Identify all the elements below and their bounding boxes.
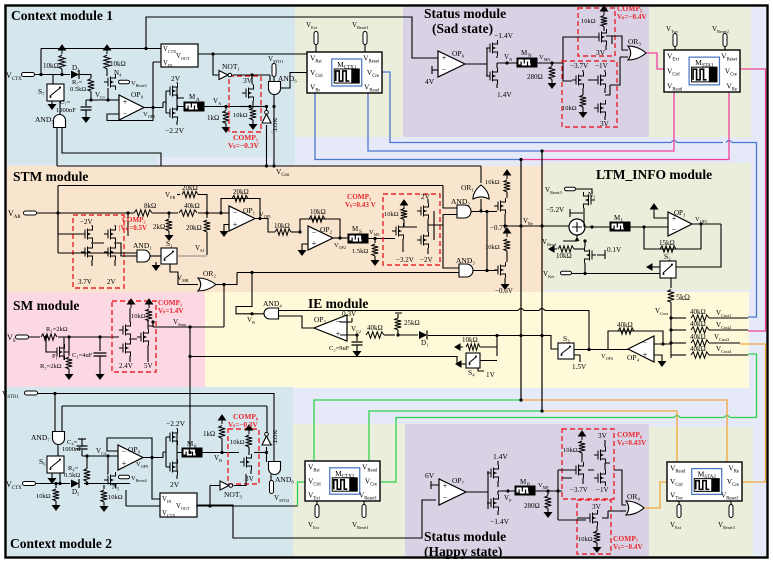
OR1 output to VCou line: [480, 166, 482, 183]
wire ML to OP3: [630, 226, 668, 228]
NOT5 wires: [266, 107, 268, 167]
V_Ext connector M_STA2: [678, 501, 680, 505]
memristor M_P: [515, 486, 535, 495]
comp6 left nmos: [581, 453, 583, 462]
svg-text:8kΩ: 8kΩ: [144, 202, 156, 210]
svg-text:3V: 3V: [600, 120, 610, 128]
AND7 out to S6: [57, 445, 59, 457]
AND1 to S1: [150, 255, 161, 257]
svg-text:10kΩ: 10kΩ: [230, 439, 245, 446]
svg-text:2V: 2V: [171, 74, 181, 83]
M_STA2 region: [649, 427, 753, 557]
svg-text:AND₇: AND₇: [31, 433, 50, 442]
svg-text:D₅: D₅: [72, 488, 80, 496]
svg-text:10kΩ: 10kΩ: [485, 179, 500, 186]
svg-text:15kΩ: 15kΩ: [659, 239, 675, 247]
happy gate line: [487, 471, 489, 509]
svg-text:40kΩ: 40kΩ: [184, 202, 200, 210]
wire and2-and3 link: [486, 212, 488, 271]
comp5 pmos: [603, 27, 605, 32]
op-amp OP2: [308, 226, 333, 250]
svg-text:−2.2V: −2.2V: [166, 419, 186, 428]
memristor module M_STA1: [664, 50, 740, 92]
wire MN right: [537, 62, 563, 64]
svg-text:AND₁: AND₁: [133, 241, 152, 250]
memristor module M_CTX2: [305, 461, 380, 501]
svg-text:40kΩ: 40kΩ: [617, 321, 633, 329]
AND2 gate: [457, 205, 471, 218]
AND4 input from OP5: [279, 316, 315, 328]
wire OR2 to AND3: [237, 272, 459, 274]
comp3 resistor 10k: [401, 209, 407, 220]
comp6 gnd stub: [579, 431, 586, 440]
svg-text:AND₃: AND₃: [456, 256, 475, 265]
stm right resistor 10k top: [504, 180, 510, 192]
gate NOT1: [213, 54, 219, 75]
AND8 gate: [269, 462, 281, 475]
svg-text:M: M: [352, 225, 359, 233]
svg-text:OR₁: OR₁: [461, 183, 474, 192]
comp2 left pair: [81, 226, 93, 242]
svg-text:LTM_INFO module: LTM_INFO module: [596, 167, 712, 182]
resistor 280 happy: [547, 491, 549, 495]
svg-text:10kΩ: 10kΩ: [108, 494, 123, 501]
svg-text:Vₜ=−0.4V: Vₜ=−0.4V: [617, 13, 647, 21]
svg-text:S₁: S₁: [166, 239, 173, 248]
Status module (Sad state) region: [403, 7, 649, 137]
OP5 plus wire: [340, 334, 357, 336]
diode D5: [71, 480, 79, 488]
OP2 ground: [302, 244, 308, 250]
OR2 output wire: [216, 273, 237, 285]
sm wires: [112, 322, 153, 339]
V_Re node: [505, 225, 570, 227]
resistor 1k below V_A: [225, 107, 227, 111]
M_STA1 region: [649, 7, 751, 137]
COMP1 pmos: [242, 85, 254, 101]
svg-text:D₁: D₁: [421, 339, 429, 347]
memristor M_N: [517, 58, 537, 67]
svg-text:20kΩ: 20kΩ: [186, 224, 202, 232]
svg-text:20kΩ: 20kΩ: [182, 184, 198, 192]
memristor M_L: [610, 222, 630, 231]
wire ctx2 bottom net: [126, 505, 298, 507]
svg-text:0.5kΩ: 0.5kΩ: [64, 472, 80, 479]
wire R7 to VC1 rail: [90, 92, 92, 101]
node 2k: [167, 211, 170, 214]
svg-text:−2.2V: −2.2V: [165, 126, 185, 135]
vcc stub N4: [104, 45, 111, 54]
P1 right leg: [64, 337, 69, 352]
svg-text:AND₄: AND₄: [263, 299, 282, 308]
OP3 feedback: [644, 224, 701, 249]
op-amp OP4: [628, 336, 654, 362]
Context module 1 region: [7, 7, 295, 157]
svg-text:SM module: SM module: [13, 298, 79, 313]
AND4 input long line from V_OP4: [279, 311, 590, 350]
svg-text:AND₂: AND₂: [451, 197, 470, 206]
happy out node: [498, 490, 515, 492]
svg-text:40kΩ: 40kΩ: [690, 333, 706, 341]
resistor R1 2k: [41, 334, 57, 340]
svg-text:N: N: [528, 54, 532, 59]
capacitor C1: [99, 337, 101, 351]
resistor 10k N4: [104, 55, 110, 69]
svg-text:−: −: [233, 208, 238, 217]
svg-text:40kΩ: 40kΩ: [367, 324, 383, 332]
ground S7: [51, 101, 53, 104]
comp8 nmos: [248, 447, 250, 455]
svg-text:Vₜ=0.43V: Vₜ=0.43V: [617, 439, 647, 447]
memristor module M_CTX1: [307, 52, 382, 93]
AND8 wires: [267, 453, 272, 481]
svg-text:IE module: IE module: [308, 296, 368, 311]
svg-text:+: +: [442, 54, 447, 63]
comp8 resistor 10k: [246, 435, 252, 447]
comp3 pmos pair: [417, 203, 429, 219]
wire VA into comp1: [240, 106, 253, 108]
V_CTX connector: [22, 73, 35, 77]
svg-text:OR₃: OR₃: [628, 37, 641, 46]
svg-text:|Vₜ|=0.5V: |Vₜ|=0.5V: [119, 224, 147, 232]
svg-text:0.5kΩ: 0.5kΩ: [70, 86, 86, 93]
wire M_A to COMP1: [204, 106, 240, 108]
svg-text:10kΩ: 10kΩ: [485, 244, 500, 251]
resistor 40k row3: [671, 342, 686, 344]
svg-text:OP₅: OP₅: [314, 315, 327, 324]
wire blue V_Br M_CTX1 to x521 junction: [315, 93, 521, 160]
svg-text:−: −: [312, 228, 317, 237]
wire S1 bottom to OR2 input: [170, 264, 198, 285]
comp6 resistor 10k: [579, 441, 585, 453]
SM module region: [7, 292, 205, 387]
AND4 output jog to OR2-AND3 line: [236, 273, 264, 314]
wire orange x521 junction to M_STA2 V_Re: [521, 400, 727, 462]
V_Reset4 connector: [119, 475, 130, 479]
OP5 minus wire: [340, 321, 347, 323]
svg-text:+: +: [643, 350, 648, 359]
svg-text:−1V: −1V: [595, 62, 609, 70]
wire pink M_STA1 V_Re down-left: [521, 92, 729, 160]
resistor 2k divider: [168, 213, 170, 218]
svg-text:1000nF: 1000nF: [62, 446, 82, 453]
wire vertical net x521: [520, 160, 522, 401]
svg-text:−: −: [643, 339, 648, 348]
wire Vout to OP7: [197, 500, 436, 538]
svg-text:3.7V: 3.7V: [78, 278, 92, 286]
resistor 40k ie: [366, 332, 384, 338]
stm right pmos: [494, 198, 506, 214]
inverter2 out: [177, 433, 182, 471]
resistor R7 0.5k: [88, 79, 94, 92]
OP1 output: [255, 219, 275, 233]
svg-text:AND₅: AND₅: [35, 115, 54, 124]
comp6 wires: [562, 463, 626, 505]
NOT1 out wire: [233, 74, 271, 76]
node rail x58: [56, 211, 59, 214]
wire V_CTX input rail: [35, 49, 161, 75]
AND2 output: [471, 211, 497, 213]
vcc stub R ctx1: [59, 45, 66, 54]
svg-text:1.4V: 1.4V: [493, 452, 508, 461]
comp6 dashed box: [562, 429, 614, 499]
svg-text:Vₜ=1.4V: Vₜ=1.4V: [158, 307, 184, 315]
comp4 dashed box: [562, 61, 617, 127]
node V_A: [224, 105, 227, 108]
resistor 280 sad: [551, 63, 553, 66]
wire blue V_Read M_CTX1 to x542 junction: [368, 93, 542, 151]
sm vcc stubs: [128, 299, 135, 308]
resistor 5k: [668, 290, 674, 303]
switch S7: [47, 84, 64, 101]
switch S6: [47, 456, 64, 473]
svg-text:3V: 3V: [596, 48, 606, 57]
V_Smu vertical up to OR2 wire: [223, 285, 225, 328]
comp3 vcc: [401, 200, 408, 209]
ctx2 top line: [54, 394, 56, 433]
comp3 left nmos: [392, 223, 404, 239]
svg-text:N₅: N₅: [112, 483, 120, 491]
svg-text:10kΩ: 10kΩ: [581, 18, 596, 25]
svg-text:M: M: [187, 440, 194, 448]
svg-text:P₁: P₁: [52, 353, 58, 360]
resistor 40k: [179, 210, 197, 216]
sad pmos: [486, 40, 498, 56]
wire V_OUT to M_CTX1: [198, 53, 307, 55]
wire pink OR3 output to M_STA1 V_Ctrl: [646, 53, 664, 69]
V_Reset3 connector: [119, 80, 130, 84]
diode D2: [71, 71, 79, 79]
wire N4 to rail: [107, 88, 109, 100]
svg-text:(Sad state): (Sad state): [432, 21, 493, 36]
STM main rail: [36, 212, 229, 214]
svg-text:10kΩ: 10kΩ: [384, 211, 399, 218]
wire vertical net x542: [541, 151, 543, 411]
svg-text:OP₇: OP₇: [452, 476, 465, 485]
AND6 wires: [270, 75, 274, 166]
svg-text:5kΩ: 5kΩ: [676, 293, 690, 302]
S3 to V_OP4: [574, 349, 628, 351]
resistor 40k row4: [671, 354, 686, 356]
svg-text:−1V: −1V: [596, 486, 609, 494]
comp2 gate wire: [58, 213, 81, 234]
transistor N4: [104, 74, 116, 90]
stm right stub2: [504, 228, 511, 237]
comp7 wires: [577, 511, 620, 518]
AND5 input wires: [57, 127, 161, 166]
comp dashed box sm: [112, 301, 156, 372]
S4 left stub: [456, 361, 464, 367]
svg-text:C₇=: C₇=: [60, 99, 71, 106]
wire OP9 to Vbox: [152, 458, 160, 500]
svg-text:C₂=9uF: C₂=9uF: [329, 345, 350, 352]
diode D1: [398, 334, 418, 336]
P1 bypass: [46, 337, 53, 352]
wire S7 top: [52, 75, 54, 85]
svg-text:−1.4V: −1.4V: [490, 517, 510, 526]
resistor R4: [84, 469, 90, 482]
svg-text:N₁: N₁: [588, 191, 596, 199]
svg-text:3V: 3V: [592, 503, 602, 511]
ltm 10k resistor: [549, 246, 557, 252]
svg-text:10kΩ: 10kΩ: [43, 62, 59, 70]
resistor 20k divider: [206, 213, 208, 218]
inverter gate wire: [146, 91, 166, 113]
wire orange OR4 output to M_STA2 V_Ctrl: [644, 482, 667, 508]
S1 output V_S1: [177, 255, 207, 257]
wire blue V_Cre M_CTX1 to V_Cust1 right bus: [382, 72, 757, 317]
NOT3 wires: [210, 474, 246, 506]
svg-text:R₄=: R₄=: [68, 465, 79, 472]
svg-text:P: P: [527, 483, 530, 488]
OP7 output wire: [466, 491, 488, 493]
capacitor C7: [85, 100, 87, 106]
svg-text:NOT₅: NOT₅: [271, 118, 278, 134]
svg-text:R₇=: R₇=: [72, 79, 83, 86]
svg-text:2V: 2V: [170, 480, 180, 489]
svg-text:R₁=2kΩ: R₁=2kΩ: [46, 326, 68, 333]
NOT2 wires: [266, 406, 269, 453]
svg-text:−: −: [442, 65, 447, 74]
svg-text:S₂: S₂: [664, 252, 671, 261]
svg-text:25kΩ: 25kΩ: [404, 319, 420, 327]
op-amp OP5: [314, 315, 347, 341]
capacitor C2: [356, 335, 358, 341]
svg-text:A: A: [196, 98, 200, 103]
svg-text:40kΩ: 40kΩ: [690, 320, 706, 328]
svg-text:OR₂: OR₂: [203, 269, 216, 278]
comp4 nmos: [594, 100, 606, 116]
OP6 output wire: [465, 63, 487, 65]
AND1 gate: [137, 250, 150, 262]
node VC1: [89, 98, 92, 101]
OP2 output: [333, 237, 348, 239]
svg-text:6V: 6V: [425, 471, 435, 480]
OP4 minus wire: [654, 343, 671, 345]
wire D1 right: [428, 336, 558, 350]
S2 bottom wire: [670, 278, 672, 288]
happy nmos: [487, 495, 499, 511]
svg-text:OP₁: OP₁: [243, 206, 256, 215]
resistor 40k row1: [671, 317, 686, 319]
svg-text:−1.4V: −1.4V: [494, 31, 514, 40]
OP8 output: [144, 107, 163, 109]
svg-text:COMP₅: COMP₅: [617, 4, 643, 13]
svg-text:L: L: [621, 219, 624, 224]
comp4 pmos pair: [572, 72, 584, 88]
summing junction: [569, 219, 585, 235]
wire MS right: [368, 238, 395, 240]
svg-text:280Ω: 280Ω: [527, 73, 543, 81]
IE module region: [205, 292, 749, 388]
transistor N5: [104, 472, 116, 488]
svg-text:−: −: [443, 493, 448, 502]
node x542 bottom: [540, 409, 543, 412]
svg-text:C₁=4uF: C₁=4uF: [72, 352, 93, 359]
comp8 vcc: [246, 425, 253, 434]
svg-text:+: +: [443, 482, 448, 491]
svg-text:3V: 3V: [243, 76, 253, 85]
svg-text:OP₈: OP₈: [131, 90, 144, 99]
memristor M_S: [348, 234, 368, 243]
OP1 feedback: [221, 199, 260, 219]
op-amp OP9: [118, 445, 143, 470]
svg-text:10kΩ: 10kΩ: [310, 208, 326, 216]
M_CTX1 region: [295, 7, 403, 137]
wire V_Cou long horizontal: [57, 165, 481, 167]
node x542 top: [540, 149, 543, 152]
comp5 resistor 10k: [601, 16, 607, 27]
svg-text:COMP₃: COMP₃: [347, 193, 371, 201]
svg-text:−3.7V: −3.7V: [570, 62, 589, 70]
svg-text:+: +: [233, 220, 238, 229]
svg-text:C₄=: C₄=: [67, 439, 78, 446]
AND4 gate: [264, 308, 279, 319]
svg-text:−0.6V: −0.6V: [495, 287, 513, 295]
svg-text:10kΩ: 10kΩ: [563, 447, 578, 454]
svg-text:N₄: N₄: [114, 69, 122, 77]
svg-text:Context module 1: Context module 1: [11, 8, 113, 23]
resistor 1.5k: [374, 239, 376, 244]
Context module 2 region: [7, 387, 293, 557]
svg-text:NOT₁: NOT₁: [222, 62, 240, 71]
wire V_IN from OP8: [153, 62, 161, 108]
svg-text:40kΩ: 40kΩ: [690, 308, 706, 316]
AND6 gate: [269, 82, 281, 95]
wire VA net right: [253, 106, 267, 108]
svg-text:Vₜ=−0.3V: Vₜ=−0.3V: [228, 141, 260, 150]
svg-text:M: M: [521, 49, 528, 57]
wire OP3 out down to S2: [676, 224, 721, 267]
wire AND6 to M_CTX1 Vctrl: [280, 73, 307, 89]
sad gate line: [486, 48, 487, 76]
svg-text:COMP₇: COMP₇: [613, 534, 639, 543]
svg-text:OP₄: OP₄: [627, 353, 640, 362]
svg-text:+: +: [123, 97, 128, 106]
resistor 25k ie: [397, 330, 399, 335]
OR4 inputs: [620, 505, 626, 511]
svg-text:Vₜ=0.43 V: Vₜ=0.43 V: [345, 201, 377, 209]
comp6 pmos pair: [594, 447, 606, 463]
svg-text:S₄: S₄: [468, 368, 475, 377]
OP8 feedback loop: [107, 108, 153, 121]
svg-text:−: −: [122, 447, 127, 456]
svg-text:−: −: [336, 318, 341, 327]
svg-text:AND₆: AND₆: [278, 74, 297, 83]
S6 right leg: [59, 473, 61, 484]
svg-text:OR₄: OR₄: [627, 492, 640, 501]
V_STO2 connector: [270, 481, 274, 494]
switch S4: [466, 353, 480, 368]
svg-text:280Ω: 280Ω: [524, 502, 540, 510]
wire M8 right: [202, 452, 239, 454]
svg-text:+: +: [336, 329, 341, 338]
OP3 vcc: [651, 204, 658, 213]
node 20k: [205, 211, 208, 214]
ctx2 rail: [35, 483, 130, 485]
comp8 dashed box: [228, 429, 259, 484]
svg-text:OP₂: OP₂: [320, 225, 333, 234]
4V bracket OP6: [432, 66, 438, 74]
gate NOT2: [262, 432, 271, 445]
svg-text:1kΩ: 1kΩ: [207, 114, 219, 122]
wire 10k to rail: [61, 69, 63, 75]
svg-text:−2V: −2V: [80, 218, 93, 226]
comp5 wires: [563, 36, 612, 63]
svg-text:M: M: [614, 214, 621, 222]
svg-text:M: M: [520, 478, 527, 486]
svg-text:20kΩ: 20kΩ: [233, 188, 249, 196]
